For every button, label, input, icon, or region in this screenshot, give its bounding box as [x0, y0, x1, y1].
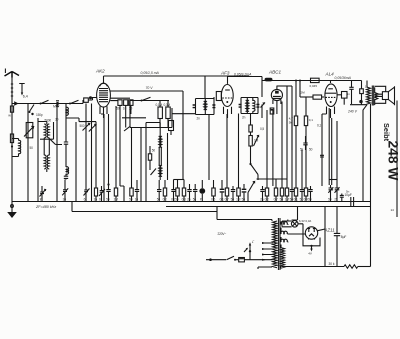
- svg-text:30: 30: [129, 106, 133, 110]
- trimmer CT2: [84, 188, 90, 202]
- resistor at AF3 left: [216, 92, 221, 101]
- component cap x137: [135, 180, 140, 202]
- resistor R25: [359, 81, 368, 105]
- capacitor C3: [64, 174, 68, 180]
- capacitor C18: [340, 190, 350, 202]
- svg-text:6,4: 6,4: [23, 94, 28, 98]
- bottom return: [283, 266, 344, 268]
- bus 2: [166, 206, 370, 208]
- power feed: [217, 207, 272, 220]
- component cap x108.5: [106, 114, 111, 202]
- wire x28: [27, 104, 29, 202]
- tube AL4: [325, 72, 338, 119]
- IF transformer T1: [38, 104, 62, 202]
- output transformer TR2: [350, 81, 382, 106]
- speaker: [375, 86, 395, 105]
- component box x184: [182, 180, 186, 202]
- component box x177.5: [175, 180, 179, 202]
- svg-text:2n: 2n: [242, 116, 246, 120]
- coil L4: [66, 167, 69, 174]
- resistor R24: [300, 91, 324, 100]
- svg-text:0,1: 0,1: [317, 124, 321, 128]
- resistor R9: [148, 146, 151, 170]
- wire anode AK2 top line: [104, 75, 250, 77]
- wire x297: [292, 207, 298, 221]
- tuning gang C5: [89, 104, 96, 202]
- heater bracket: [303, 238, 320, 256]
- wire osc mid: [122, 117, 146, 119]
- svg-text:500: 500: [80, 124, 85, 128]
- oscillator frame: [130, 101, 172, 128]
- coil osc: [169, 121, 174, 136]
- coil L1: [12, 139, 21, 157]
- wire top line B: [262, 80, 362, 82]
- capacitor C6b: [129, 100, 133, 114]
- cap bracket AL4: [329, 179, 337, 181]
- tone capacitor C19: [347, 81, 354, 105]
- tube AK2: [95, 69, 110, 119]
- resistor R6: [166, 101, 170, 128]
- svg-text:220V~: 220V~: [218, 232, 227, 236]
- mains switch: [227, 256, 239, 261]
- svg-text:50: 50: [328, 197, 332, 201]
- svg-text:0,1: 0,1: [309, 118, 314, 122]
- resistor Ra2: [10, 134, 13, 143]
- wire right vertical: [370, 104, 372, 267]
- filter capacitor C21: [334, 207, 347, 267]
- wire x104: [101, 114, 104, 202]
- capacitor C7 link: [107, 183, 109, 185]
- svg-text:30: 30: [63, 197, 67, 201]
- filter capacitor C20: [345, 193, 354, 207]
- svg-text:2M: 2M: [301, 91, 306, 95]
- bus 3 heater: [72, 211, 217, 213]
- switch S2: [71, 100, 79, 103]
- switch S1: [41, 100, 49, 103]
- component cap x159.2: [157, 180, 162, 202]
- resistor R3: [94, 186, 98, 202]
- component box x213.5: [211, 180, 215, 202]
- capacitor C14: [291, 86, 293, 150]
- component box x282: [280, 102, 284, 202]
- svg-text:50: 50: [152, 149, 156, 153]
- component dcap x222: [220, 180, 225, 202]
- wire right edge: [396, 101, 398, 218]
- svg-text:0,05/1,5 mA: 0,05/1,5 mA: [141, 71, 160, 75]
- svg-text:25: 25: [334, 197, 338, 201]
- bus chassis: [12, 201, 370, 203]
- svg-text:50: 50: [106, 197, 110, 201]
- svg-text:150p: 150p: [36, 113, 43, 117]
- tuning gang C4: [83, 104, 90, 189]
- resistor R13: [249, 114, 252, 136]
- svg-text:0,3M: 0,3M: [164, 103, 171, 107]
- potentiometer P1: [249, 136, 259, 165]
- antenna terminal 6,4: [19, 84, 28, 99]
- svg-text:8µF: 8µF: [341, 235, 347, 239]
- component cap x173.5: [171, 180, 176, 202]
- node antenna terminal: [56, 102, 59, 105]
- svg-text:2M: 2M: [114, 197, 119, 201]
- component cap x310.5: [308, 186, 313, 202]
- coil L3: [66, 107, 68, 115]
- svg-text:P: P: [200, 197, 202, 201]
- IF transformer T2: [146, 123, 168, 202]
- wire HV to tube: [324, 207, 326, 267]
- IF transformer T3: [193, 97, 216, 115]
- svg-text:50: 50: [175, 197, 179, 201]
- rectifier tube AZ11: [305, 227, 335, 240]
- resistor R5: [158, 101, 162, 128]
- resistor R26: [329, 262, 371, 268]
- svg-text:50: 50: [231, 197, 235, 201]
- svg-text:0,3: 0,3: [182, 197, 186, 201]
- capacitor C17: [334, 185, 339, 202]
- resistor Ra1: [8, 106, 13, 118]
- wire heater drop: [71, 202, 73, 212]
- svg-text:ZF=480 kHz: ZF=480 kHz: [35, 205, 56, 209]
- switch S3: [30, 105, 35, 112]
- component cap x292: [290, 120, 295, 202]
- trimmer CT4: [151, 169, 157, 176]
- svg-text:10: 10: [135, 197, 139, 201]
- svg-text:0,1: 0,1: [294, 197, 298, 201]
- wire y179 link: [257, 178, 288, 180]
- wire antenna input line: [12, 103, 83, 105]
- component box x267: [265, 110, 269, 202]
- svg-text:70 V: 70 V: [146, 86, 154, 90]
- wire osc to T3: [172, 113, 196, 115]
- switch S4: [142, 97, 151, 100]
- wire screen line: [110, 91, 183, 180]
- svg-text:1M: 1M: [254, 139, 259, 143]
- svg-text:AL4: AL4: [325, 72, 335, 77]
- capacitor C15: [303, 136, 307, 150]
- svg-text:4V: 4V: [308, 251, 312, 255]
- mains transformer TR1: [258, 218, 288, 270]
- capacitor 150p: [31, 113, 43, 117]
- svg-text:0,7: 0,7: [274, 197, 278, 201]
- svg-text:AK2: AK2: [95, 69, 105, 74]
- resistor R19: [289, 116, 298, 126]
- svg-text:0,2: 0,2: [265, 197, 269, 201]
- resistor R21: [304, 108, 313, 126]
- trimmer CT3: [99, 186, 105, 202]
- ground: [7, 202, 17, 219]
- svg-text:10: 10: [123, 106, 127, 110]
- svg-text:2n: 2n: [187, 197, 191, 201]
- component box x238.5: [236, 114, 241, 202]
- wire x76: [75, 122, 77, 202]
- svg-text:6,3V 0,3A: 6,3V 0,3A: [299, 219, 311, 223]
- capacitor C-grid: [83, 96, 97, 103]
- wire ABC1 drops: [272, 110, 274, 186]
- capacitor C6: [118, 100, 122, 114]
- fuse: [239, 258, 262, 262]
- svg-text:240 V: 240 V: [347, 110, 358, 114]
- resistor R23: [310, 78, 320, 88]
- component cap x195.2: [193, 184, 198, 202]
- component box x131.5: [129, 128, 133, 202]
- switch S5: [249, 163, 258, 180]
- mains line: [206, 258, 226, 261]
- variable capacitor C-osc: [24, 123, 34, 138]
- switch S6: [248, 182, 255, 202]
- wire x300: [296, 81, 306, 117]
- wire anode AF3 line: [228, 77, 263, 98]
- wire x363: [363, 105, 367, 202]
- component box x287: [285, 103, 290, 202]
- svg-text:50: 50: [280, 197, 284, 201]
- wire drop to T3: [204, 76, 206, 98]
- svg-text:0,05/9,2mA: 0,05/9,2mA: [234, 72, 252, 76]
- resistor at AL4 right: [337, 92, 347, 105]
- svg-text:0,05/36mA: 0,05/36mA: [335, 76, 352, 80]
- svg-text:5n: 5n: [347, 92, 351, 96]
- primary taps: [262, 242, 273, 261]
- tube AF3: [220, 71, 233, 119]
- resistor bracket: [174, 179, 185, 181]
- capacitor small x322: [320, 155, 324, 157]
- svg-text:50: 50: [309, 148, 313, 152]
- svg-text:50: 50: [30, 146, 34, 150]
- svg-text:Seibt: Seibt: [382, 123, 391, 142]
- trimmer CT1: [40, 186, 46, 202]
- tube ABC1: [268, 70, 283, 115]
- component cap x302: [300, 150, 305, 202]
- component dcap x244: [242, 184, 247, 202]
- antenna: [5, 69, 20, 104]
- component trim x65: [62, 180, 68, 202]
- svg-text:50: 50: [157, 197, 161, 201]
- svg-text:0,1M: 0,1M: [156, 103, 163, 107]
- node dots: [295, 80, 297, 82]
- svg-text:50: 50: [129, 197, 133, 201]
- svg-text:5000: 5000: [45, 119, 52, 123]
- trimmer arrow osc: [124, 126, 131, 131]
- svg-text:50: 50: [308, 197, 312, 201]
- svg-text:5n: 5n: [193, 197, 197, 201]
- front-end frame wires: [66, 118, 96, 186]
- arrow on antenna wire: [14, 101, 18, 106]
- svg-text:1M: 1M: [236, 197, 241, 201]
- svg-text:10µF: 10µF: [345, 193, 352, 197]
- svg-text:2n: 2n: [260, 197, 264, 201]
- svg-text:30 k: 30 k: [329, 262, 335, 266]
- svg-text:0,2: 0,2: [163, 197, 167, 201]
- svg-text:W: W: [8, 114, 11, 118]
- potentiometer knob: [199, 180, 205, 202]
- component cap x262.5: [260, 186, 265, 202]
- earth arrow: [244, 240, 254, 260]
- svg-text:0,5: 0,5: [211, 197, 215, 201]
- component cap x233: [231, 186, 236, 202]
- component box x276: [274, 179, 278, 202]
- wire AL4 drops: [322, 108, 337, 186]
- svg-text:0,045: 0,045: [310, 84, 318, 88]
- svg-text:25: 25: [94, 197, 98, 201]
- component box x227: [225, 114, 229, 202]
- node: [11, 145, 13, 147]
- svg-text:0,1: 0,1: [220, 197, 224, 201]
- component box x116: [114, 106, 119, 202]
- svg-text:1M: 1M: [285, 197, 290, 201]
- svg-text:0,7: 0,7: [225, 197, 229, 201]
- component box x296: [294, 126, 298, 202]
- svg-text:50: 50: [116, 106, 120, 110]
- IF transformer T4: [239, 98, 260, 114]
- diode arrow: [261, 102, 266, 118]
- component box x165: [163, 180, 167, 202]
- component box x306: [304, 126, 308, 202]
- pilot lamp: [282, 219, 311, 237]
- svg-text:248 W: 248 W: [386, 141, 400, 182]
- wire left drop: [11, 104, 13, 202]
- svg-text:ABC1: ABC1: [268, 70, 281, 75]
- svg-text:0,5: 0,5: [260, 127, 264, 131]
- wire x120: [120, 114, 124, 202]
- grid cap capsule: [265, 78, 273, 82]
- resistor R4: [124, 100, 128, 128]
- wire heater feed: [288, 233, 306, 235]
- svg-text:30: 30: [55, 118, 59, 122]
- capacitor C2: [64, 104, 68, 167]
- wire x209: [208, 115, 210, 181]
- component cap x189.5: [187, 184, 192, 202]
- resistor under ABC1: [270, 108, 274, 114]
- svg-text:AF3: AF3: [220, 71, 230, 76]
- capacitor C16: [328, 185, 333, 202]
- svg-text:14: 14: [391, 208, 395, 212]
- svg-text:50: 50: [242, 197, 246, 201]
- wire osc drop: [140, 128, 142, 202]
- svg-text:2n: 2n: [197, 117, 201, 121]
